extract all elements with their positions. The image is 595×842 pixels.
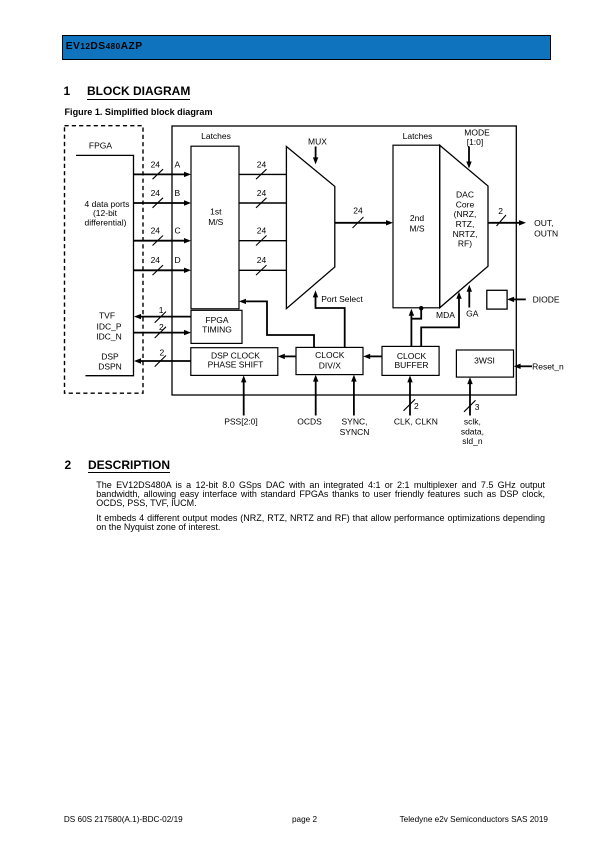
arrowhead mux out bbox=[386, 220, 393, 225]
arrowhead MUX label bbox=[313, 157, 318, 164]
svg-text:DSPN: DSPN bbox=[98, 362, 122, 372]
svg-text:SYNC,: SYNC, bbox=[342, 417, 368, 427]
svg-text:Latches: Latches bbox=[201, 131, 231, 141]
arrowhead A bbox=[184, 172, 191, 177]
svg-text:OUT,: OUT, bbox=[534, 218, 553, 228]
svg-text:BUFFER: BUFFER bbox=[395, 360, 429, 370]
wire diode bbox=[512, 298, 526, 300]
arrowhead diode bbox=[507, 297, 514, 302]
svg-text:C: C bbox=[175, 226, 181, 236]
svg-text:DAC: DAC bbox=[456, 190, 474, 200]
svg-text:24: 24 bbox=[151, 226, 161, 236]
arrowhead MODE bbox=[466, 162, 471, 169]
arrowhead CLK bbox=[407, 375, 412, 382]
svg-text:24: 24 bbox=[257, 188, 267, 198]
header blue bar bbox=[62, 35, 552, 60]
footer bbox=[64, 816, 183, 824]
slash DSP bbox=[155, 356, 166, 367]
svg-text:[1:0]: [1:0] bbox=[467, 137, 484, 147]
svg-text:1: 1 bbox=[159, 305, 164, 315]
svg-text:FPGA: FPGA bbox=[205, 315, 228, 325]
arrowhead DSP bbox=[134, 358, 141, 363]
svg-text:24: 24 bbox=[151, 188, 161, 198]
description paragraph 1 bbox=[96, 481, 545, 508]
section 1 heading bbox=[64, 85, 71, 97]
wire branch to dot bbox=[411, 308, 421, 319]
header part number text bbox=[66, 42, 143, 52]
svg-text:A: A bbox=[175, 159, 181, 169]
wire CLK pin bbox=[409, 380, 411, 415]
svg-text:SYNCN: SYNCN bbox=[340, 427, 370, 437]
svg-text:differential): differential) bbox=[85, 218, 127, 228]
svg-text:2: 2 bbox=[498, 206, 503, 216]
svg-text:Latches: Latches bbox=[403, 131, 433, 141]
svg-text:24: 24 bbox=[257, 226, 267, 236]
svg-text:Port Select: Port Select bbox=[321, 294, 363, 304]
slash 24 mux out bbox=[353, 217, 364, 228]
wire latch D to mux bbox=[239, 269, 286, 271]
figure caption bbox=[65, 108, 213, 117]
wire GA bbox=[468, 288, 470, 308]
FPGA dashed boundary bbox=[65, 126, 144, 394]
section 2 heading bbox=[65, 459, 72, 471]
slash CLK pin bbox=[404, 399, 416, 411]
arrowhead div to dsp bbox=[278, 354, 285, 359]
wire latch B to mux bbox=[239, 202, 286, 204]
svg-text:TVF: TVF bbox=[99, 310, 115, 320]
block diagram bbox=[0, 0, 595, 460]
slash B right bbox=[256, 198, 267, 208]
latch 1st M/S bbox=[191, 146, 239, 309]
wire port C bbox=[134, 240, 186, 242]
svg-text:M/S: M/S bbox=[208, 217, 223, 227]
wire clock to 1st latch bbox=[244, 301, 314, 347]
wire clock buffer to 2nd latch bbox=[410, 312, 412, 347]
arrowhead GA bbox=[467, 285, 472, 292]
3WSI block bbox=[456, 350, 513, 377]
svg-text:IDC_P: IDC_P bbox=[96, 322, 121, 332]
svg-text:MDA: MDA bbox=[436, 310, 455, 320]
svg-text:2: 2 bbox=[414, 401, 419, 411]
svg-text:sld_n: sld_n bbox=[462, 436, 483, 446]
slash D right bbox=[256, 265, 267, 275]
svg-text:1st: 1st bbox=[210, 206, 222, 216]
wire PSS pin bbox=[243, 380, 245, 415]
svg-text:DIODE: DIODE bbox=[533, 294, 560, 304]
wire MODE arrow bbox=[468, 147, 470, 164]
svg-text:OCDS: OCDS bbox=[297, 417, 322, 427]
wire DSP out bbox=[140, 360, 191, 362]
CLOCK BUFFER block bbox=[382, 346, 439, 375]
wire IDC in bbox=[134, 332, 186, 334]
DSP CLOCK PHASE SHIFT block bbox=[191, 348, 278, 376]
svg-text:Core: Core bbox=[456, 199, 475, 209]
wire OCDS pin bbox=[315, 380, 317, 416]
svg-text:NRTZ,: NRTZ, bbox=[453, 229, 478, 239]
arrowhead MDA bbox=[456, 292, 461, 299]
FPGA TIMING block bbox=[191, 310, 242, 343]
wire latch A to mux bbox=[239, 173, 286, 175]
svg-text:2: 2 bbox=[159, 322, 164, 332]
svg-text:OUTN: OUTN bbox=[534, 228, 558, 238]
arrowhead clock to 2nd latch bbox=[409, 309, 414, 316]
wire MDA net bbox=[421, 296, 459, 347]
svg-text:RTZ,: RTZ, bbox=[456, 219, 475, 229]
svg-text:M/S: M/S bbox=[409, 223, 424, 233]
svg-text:D: D bbox=[175, 255, 181, 265]
wire port D bbox=[134, 269, 186, 271]
svg-text:PHASE SHIFT: PHASE SHIFT bbox=[208, 359, 264, 369]
DAC core trapezoid bbox=[440, 145, 488, 308]
svg-text:GA: GA bbox=[466, 308, 479, 318]
mux trapezoid bbox=[286, 147, 334, 309]
slash B left bbox=[153, 198, 164, 208]
svg-text:RF): RF) bbox=[458, 239, 472, 249]
svg-text:CLK, CLKN: CLK, CLKN bbox=[394, 417, 438, 427]
svg-text:24: 24 bbox=[353, 205, 363, 215]
latch 2nd M/S bbox=[393, 145, 440, 308]
svg-text:MODE: MODE bbox=[464, 128, 490, 138]
svg-text:3: 3 bbox=[475, 402, 480, 412]
FPGA block outline bbox=[76, 155, 134, 375]
wire DAC out bbox=[488, 222, 521, 224]
arrowhead TVF bbox=[134, 314, 141, 319]
wire sclk pin bbox=[469, 382, 471, 415]
arrowhead sclk bbox=[467, 377, 472, 384]
svg-text:24: 24 bbox=[257, 255, 267, 265]
svg-text:Reset_n: Reset_n bbox=[532, 361, 564, 371]
svg-text:2: 2 bbox=[160, 348, 165, 358]
slash D left bbox=[153, 265, 164, 275]
CLOCK DIV/X block bbox=[296, 347, 363, 374]
arrowhead OCDS bbox=[313, 375, 318, 382]
arrowhead C bbox=[184, 238, 191, 243]
arrowhead IDC bbox=[184, 330, 191, 335]
slash 2 out bbox=[497, 215, 507, 226]
svg-text:sdata,: sdata, bbox=[461, 426, 484, 436]
svg-text:PSS[2:0]: PSS[2:0] bbox=[224, 417, 258, 427]
svg-text:24: 24 bbox=[257, 159, 267, 169]
arrowhead clock to 1st latch bbox=[239, 299, 246, 304]
svg-text:(NRZ,: (NRZ, bbox=[454, 209, 477, 219]
junction dot bbox=[419, 306, 423, 310]
wire port select bbox=[316, 294, 345, 348]
svg-text:TIMING: TIMING bbox=[202, 325, 232, 335]
DIODE square bbox=[487, 290, 507, 309]
svg-text:FPGA: FPGA bbox=[89, 140, 112, 150]
svg-text:24: 24 bbox=[151, 159, 161, 169]
wire clock div to dsp clock bbox=[283, 355, 296, 357]
wire TVF out bbox=[140, 316, 191, 318]
wire mux to 2nd latch bbox=[335, 222, 387, 224]
svg-text:DSP: DSP bbox=[101, 352, 119, 362]
svg-text:2nd: 2nd bbox=[410, 213, 424, 223]
wire reset_n bbox=[519, 365, 532, 367]
slash A right bbox=[256, 169, 267, 179]
arrowhead D bbox=[184, 268, 191, 273]
slash C left bbox=[153, 236, 164, 246]
arrowhead SYNC bbox=[351, 375, 356, 382]
arrowhead reset_n bbox=[514, 364, 521, 369]
slash IDC bbox=[155, 327, 166, 338]
arrowhead PSS bbox=[241, 375, 246, 382]
wire MUX label arrow bbox=[315, 147, 317, 160]
chip boundary bbox=[172, 126, 516, 395]
slash C right bbox=[256, 236, 267, 246]
slash TVF bbox=[155, 312, 166, 323]
svg-text:MUX: MUX bbox=[308, 137, 327, 147]
wire port A bbox=[134, 173, 186, 175]
wire port B bbox=[134, 202, 186, 204]
svg-text:3WSI: 3WSI bbox=[474, 356, 495, 366]
arrowhead DAC out bbox=[519, 220, 526, 225]
svg-text:B: B bbox=[175, 188, 181, 198]
slash A left bbox=[153, 169, 164, 179]
svg-text:DIV/X: DIV/X bbox=[319, 361, 342, 371]
svg-text:IDC_N: IDC_N bbox=[96, 332, 122, 342]
wire latch C to mux bbox=[239, 240, 286, 242]
svg-text:sclk,: sclk, bbox=[464, 417, 481, 427]
arrowhead B bbox=[184, 200, 191, 205]
arrowhead cb to div bbox=[363, 354, 370, 359]
description paragraph 2 bbox=[96, 514, 545, 532]
svg-text:24: 24 bbox=[151, 255, 161, 265]
wire clock buffer to clock div bbox=[368, 355, 382, 357]
svg-text:CLOCK: CLOCK bbox=[315, 350, 345, 360]
slash sclk pin bbox=[464, 400, 476, 412]
wire SYNC pin bbox=[353, 380, 355, 416]
arrowhead port select bbox=[313, 290, 318, 297]
